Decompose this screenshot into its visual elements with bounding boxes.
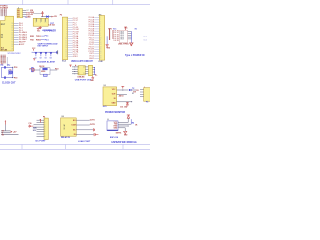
svg-text:C11 104: C11 104 [120,106,128,109]
resistor network column 2 [112,30,114,39]
U4 pin 1 stub [35,19,37,22]
power flag VCC arrow bottom-left [5,120,7,121]
svg-text:33: 33 [11,37,13,39]
svg-text:8550: 8550 [41,71,45,73]
U6 left pin wires [72,66,78,68]
connector P2 body [62,17,67,60]
wire row4 down [124,128,126,131]
svg-text:29: 29 [11,46,13,48]
svg-text:16: 16 [100,51,102,53]
title block divider x=65.5 [65,144,67,149]
power flag VCC typec [124,26,127,28]
svg-text:GND1: GND1 [73,56,78,58]
svg-text:CC2: CC2 [143,40,146,42]
buzzer LS1 symbol [32,68,34,72]
svg-text:10: 10 [65,38,67,40]
svg-text:30: 30 [11,44,13,46]
capacitor C9 body [44,74,48,76]
title block divider x=22 [21,144,23,149]
svg-text:D+: D+ [95,74,98,76]
svg-text:S2: S2 [40,57,42,59]
net flag +5V arrow bottom [11,131,13,133]
J1 right pin wires [128,31,132,33]
U8 pin wire row2 [76,124,90,126]
wire RXD row [41,35,44,37]
svg-text:RXD1: RXD1 [36,40,41,42]
module U7 bottom bar [107,129,118,131]
wire from U1 down to crystal [6,57,8,66]
node XTAL1 junction [12,67,13,68]
power flag VCC esp [127,114,130,116]
mcu U1 body [0,16,13,51]
U8 pin wire row1 [76,119,90,121]
svg-text:30p: 30p [0,65,4,67]
svg-text:5V: 5V [136,90,139,92]
sheet border top line [0,4,150,6]
svg-text:14: 14 [65,47,67,49]
svg-text:S4: S4 [50,56,52,59]
U5 right pin wires [23,10,27,12]
svg-text:U4: U4 [107,119,109,121]
svg-text:P2: P2 [60,15,62,17]
svg-text:Y1: Y1 [9,70,11,72]
ground symbol below C11 [126,105,128,107]
driver loop wire right [49,68,51,75]
battery B1 at row4 [93,133,95,136]
connector P4 body [44,118,48,139]
sheet border tick x=112.7 [112,0,114,5]
P4 pin wires [37,119,45,121]
title block top line [0,143,150,145]
svg-text:12: 12 [100,42,102,44]
svg-text:36: 36 [11,30,13,32]
power flag VCC serial [37,28,40,30]
svg-text:+5V: +5V [13,131,17,133]
svg-text:6: 6 [44,131,45,133]
U5 top pin stub [18,7,20,8]
svg-text:RELAY-5V: RELAY-5V [61,136,71,139]
wire D2 right [131,89,136,91]
wire cap to diode [42,16,46,18]
svg-text:14: 14 [100,46,102,48]
wire RP1 to ground [106,36,108,44]
svg-text:GND: GND [124,135,128,137]
U1 right pin wires [14,22,19,24]
crystal Y1 bar [8,70,10,75]
driver loop wire left [39,68,41,75]
wire U1 top pin 1 [0,9,2,17]
svg-text:GND2: GND2 [89,58,94,60]
U3 pin wire row2 [117,94,127,96]
ground symbol below J1 bus [130,43,133,45]
svg-text:15: 15 [100,49,102,51]
svg-text:2: 2 [44,122,45,124]
wire diode to +5V flag [49,16,52,18]
svg-text:R4: R4 [132,122,134,125]
U1 bottom vertical net text column 3 [4,55,6,64]
svg-text:30p: 30p [7,65,11,67]
svg-text:P18: P18 [14,67,17,69]
U4 pin 2 stub [40,19,42,22]
svg-text:13: 13 [100,44,102,46]
wire row2 vertical [130,119,132,124]
ground symbol below RP1 [106,45,108,47]
svg-text:10K R5: 10K R5 [113,40,119,42]
svg-text:17: 17 [65,54,67,56]
connector JP1 body [99,16,104,61]
U7 pin wire row2 [118,123,131,125]
svg-text:31: 31 [11,42,13,44]
wire U1 top pin 2 [2,9,4,17]
svg-text:RELAY: RELAY [63,123,66,130]
svg-text:5V: 5V [135,29,138,31]
svg-text:CLOCK CKT: CLOCK CKT [2,82,16,84]
diode D1 [46,15,49,18]
connector JP2 body [144,88,151,102]
module U7 body [107,121,118,131]
svg-text:2: 2 [78,73,79,75]
svg-text:1: 1 [78,67,79,69]
wire row1 up to VCC [127,118,129,122]
driver loop wire bottom [40,74,50,76]
capacitor C2 plates [3,66,5,69]
ground symbol below U7 [124,131,127,133]
resistor network RP1 body [109,29,111,40]
svg-text:19: 19 [100,58,102,60]
crystal circuit right wire [12,67,14,77]
svg-text:18: 18 [65,56,67,58]
U4 pin 3 stub [44,19,46,22]
svg-text:Type c POWER IN: Type c POWER IN [125,55,145,57]
svg-text:VBUS: VBUS [120,31,124,33]
resistor R9 at bus end [57,50,59,54]
ic U8 body [61,118,77,136]
wire J1 bus to ground [130,40,132,43]
svg-text:15: 15 [65,49,67,51]
wire VCC down [4,125,6,131]
JP2 left pin wires [140,89,144,91]
svg-text:POWER MONITOR: POWER MONITOR [105,112,125,114]
svg-text:16: 16 [65,52,67,54]
power input wire 3 [1,134,19,136]
capacitor C12 at row3 [92,128,94,131]
svg-text:11: 11 [66,40,68,42]
capacitor C7 polarized [42,11,44,13]
title block divider x=123 [122,144,124,149]
svg-text:OUT2: OUT2 [90,124,95,126]
svg-text:C8 104: C8 104 [49,23,56,26]
capacitor C11 [126,102,129,104]
wire U1 top pin 4 [5,9,7,17]
key S3 symbol [45,52,48,54]
svg-text:39: 39 [11,23,13,25]
svg-text:+5V: +5V [53,16,57,18]
resistor R8 body [43,68,48,70]
svg-text:35: 35 [11,32,13,34]
wire buzzer to driver [34,69,40,71]
power flag VCC buzzer [33,58,35,60]
svg-text:RP1: RP1 [108,28,112,30]
JP1 pin wires [94,17,99,19]
svg-text:P23: P23 [55,69,58,71]
regulator U4 body [33,18,48,26]
svg-text:5: 5 [44,129,45,131]
svg-text:RXD: RXD [30,36,35,38]
svg-text:TXD1: TXD1 [36,36,41,38]
svg-text:STC89C52RC: STC89C52RC [8,53,22,55]
svg-text:VBUS: VBUS [120,39,124,41]
ground symbol below U4 [39,26,41,27]
crystal circuit left wire [0,67,2,77]
J2 right wires [93,66,95,68]
power flag VCC at U3 [121,85,124,87]
U8 pin wire row3 [76,129,93,131]
svg-text:I2C PORT: I2C PORT [35,141,46,143]
svg-text:10: 10 [100,37,102,39]
bus wire right of J1 [130,32,132,40]
svg-text:IO-A: IO-A [62,60,66,63]
svg-text:VCC: VCC [124,28,128,30]
svg-text:28: 28 [11,49,13,51]
svg-text:GND: GND [107,48,111,50]
svg-text:BUZZER ALARM: BUZZER ALARM [37,61,54,64]
connector J1 type-c body [120,30,128,42]
capacitor C3 plates [3,76,5,79]
svg-text:USB PORT CKT: USB PORT CKT [75,80,92,82]
crystal circuit top wire [1,66,12,68]
svg-text:P3.1: P3.1 [45,36,49,38]
svg-text:+5V: +5V [30,14,34,16]
power input wire 1 [1,130,11,132]
keys bus wire [32,51,58,53]
U8 pin wire row4 [76,134,94,136]
svg-text:TXD: TXD [30,39,34,41]
svg-text:OUT1: OUT1 [90,119,95,121]
svg-text:12: 12 [65,43,67,45]
svg-text:3: 3 [84,73,85,75]
svg-text:LOAD PORT: LOAD PORT [78,140,91,143]
U1 bottom vertical net text column 2 [2,55,4,64]
U7 pin wire row4 [118,127,125,129]
svg-text:RST: RST [1,24,6,26]
svg-text:18: 18 [100,55,102,57]
svg-text:1K: 1K [135,124,138,126]
driver loop wire top [40,67,50,69]
ic U3 body [103,87,117,106]
svg-text:P19: P19 [14,77,17,79]
svg-text:VBUS: VBUS [120,35,124,37]
wire driver to net [50,69,57,71]
svg-text:P3.0: P3.0 [45,39,49,41]
key S4 symbol [50,52,53,54]
svg-text:CC1: CC1 [143,36,146,38]
svg-text:13: 13 [65,45,67,47]
svg-text:R8 1K: R8 1K [39,66,45,68]
P2 pin wires [68,17,73,19]
connector J2 body [89,65,93,75]
U6 to J2 wires [85,66,88,68]
diode D2 [129,89,131,91]
svg-text:3: 3 [44,124,45,126]
crystal Y1 ellipse [9,71,13,74]
red node mark [75,65,76,66]
ic U5 body [17,9,22,18]
svg-text:G: G [40,22,41,24]
svg-text:GND: GND [26,16,31,18]
svg-text:COM: COM [71,125,76,127]
svg-text:ESP8266 WIFI MODULE: ESP8266 WIFI MODULE [112,142,138,144]
svg-text:U2 CH340: U2 CH340 [42,29,52,32]
sheet border tick x=68 [67,0,69,5]
bus wire right of J2 [94,67,96,74]
key S2 symbol [40,52,43,54]
key S1 symbol [35,52,38,54]
net flag +5V arrow [52,16,53,18]
power flag VCC at P4 [40,118,41,120]
node XTAL2 junction [12,77,13,78]
capacitor C10 left of P4 [28,125,30,128]
svg-text:1: 1 [44,120,45,122]
svg-text:S3: S3 [45,57,47,59]
sheet border bottom line [0,148,150,150]
svg-text:VBUS: VBUS [120,37,124,39]
svg-text:USB-TYPEC: USB-TYPEC [118,44,130,46]
svg-text:34: 34 [11,35,13,37]
svg-text:37: 37 [11,28,13,30]
svg-text:7: 7 [44,134,45,136]
U1 bottom vertical net text column 1 [0,55,2,64]
svg-text:32: 32 [11,39,13,41]
svg-text:VCC: VCC [37,31,41,33]
svg-text:8: 8 [44,136,45,138]
crystal circuit bottom wire [1,77,12,79]
wire to input cap [33,13,42,15]
power flag VCC usb [69,64,71,66]
ground symbol below J2 [92,76,94,78]
svg-text:C10: C10 [28,123,31,125]
wire TXD row [41,39,45,41]
node VIN junction [41,16,42,17]
svg-text:A3: A3 [18,15,20,18]
svg-text:USB-B5: USB-B5 [77,76,84,78]
svg-text:GND: GND [112,102,117,104]
U3 pin wire row3 [117,101,132,103]
svg-text:VCC: VCC [32,48,36,50]
svg-text:38: 38 [11,25,13,27]
ic U6 body [78,66,85,75]
svg-text:ESP01: ESP01 [116,132,122,134]
svg-text:KEY INPUT: KEY INPUT [38,46,49,48]
svg-text:VBUS: VBUS [120,33,124,35]
sheet border tick x=22.7 [22,0,24,5]
svg-text:11: 11 [100,40,102,42]
svg-text:17: 17 [100,53,102,55]
svg-text:ADC0: ADC0 [119,94,124,97]
svg-text:P5: P5 [146,102,148,104]
svg-text:ESP-01S: ESP-01S [110,137,119,139]
wire U1 top pin 3 [4,9,6,17]
U7 pin wire row1 [118,121,128,123]
svg-text:STC89: STC89 [1,49,8,51]
U7 pin wire row3 [118,125,128,127]
power input wire 2 [1,132,11,134]
U3 pin wire row1 [117,89,129,91]
svg-text:IO-B: IO-B [99,61,103,63]
svg-text:ALE/P: ALE/P [19,43,25,46]
svg-text:USB-UART CIRCUIT: USB-UART CIRCUIT [71,60,94,63]
